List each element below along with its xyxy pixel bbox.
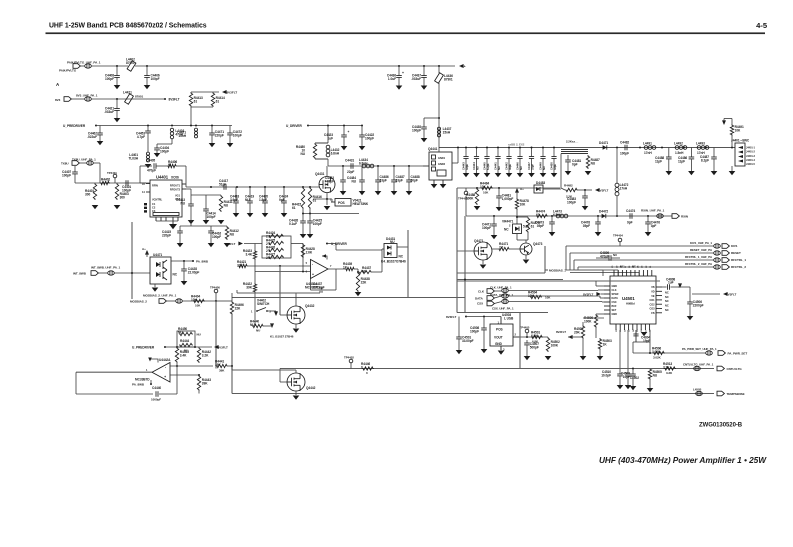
header rule	[46, 32, 766, 34]
svg-text:C4447: C4447	[527, 162, 531, 170]
svg-text:PA_PWR_SET_UHF_PA_1: PA_PWR_SET_UHF_PA_1	[682, 347, 717, 351]
node	[171, 125, 173, 127]
wire	[280, 314, 287, 316]
svg-text:22pF: 22pF	[327, 179, 334, 183]
heatsink V0421	[330, 198, 369, 206]
resistor R4437 NU	[358, 266, 372, 274]
wire	[231, 366, 233, 370]
wire	[596, 313, 604, 315]
terminal 8V3FLT	[214, 345, 219, 349]
resistor R4416 61	[308, 187, 322, 209]
wire	[190, 107, 192, 126]
svg-text:6.8nH: 6.8nH	[331, 151, 340, 155]
wire	[280, 381, 287, 383]
svg-text:3pF: 3pF	[651, 224, 657, 228]
wire	[114, 178, 116, 183]
wire	[458, 317, 460, 335]
svg-text:51pF: 51pF	[219, 183, 226, 187]
svg-text:CLK: CLK	[478, 289, 485, 293]
terminal PA_PWR_SET	[718, 351, 725, 356]
svg-text:xxBB 2, EX2: xxBB 2, EX2	[508, 142, 525, 146]
svg-text:TP4405: TP4405	[520, 325, 530, 329]
capacitor C4449 NU	[538, 148, 546, 178]
svg-text:8V3FLT: 8V3FLT	[225, 242, 236, 246]
wire	[457, 279, 563, 281]
node	[476, 147, 478, 149]
svg-text:87901: 87901	[135, 94, 143, 98]
svg-text:0.1uF: 0.1uF	[289, 222, 297, 226]
wire	[177, 165, 186, 167]
connector pad CSX	[502, 299, 509, 303]
node	[457, 147, 459, 149]
node	[519, 147, 521, 149]
svg-text:10.0pF: 10.0pF	[601, 373, 611, 377]
wire	[600, 297, 604, 299]
connector pad RFCTRL_1	[714, 258, 721, 262]
resistor R4421 22K	[237, 260, 248, 268]
svg-text:61: 61	[292, 206, 296, 210]
svg-text:TP4402: TP4402	[344, 355, 354, 359]
ground	[545, 356, 552, 360]
svg-text:NU: NU	[591, 161, 596, 165]
svg-text:22K: 22K	[237, 264, 243, 268]
svg-text:NC: NC	[665, 299, 669, 303]
node	[194, 346, 196, 348]
node	[526, 336, 528, 338]
transistor Q4442	[287, 373, 316, 391]
wire 8V3FLT feed	[191, 91, 219, 93]
ground	[324, 206, 331, 210]
ground U4401	[170, 224, 177, 228]
svg-text:61: 61	[216, 99, 220, 103]
node	[516, 216, 518, 218]
svg-text:8V3FLT: 8V3FLT	[446, 315, 457, 319]
resistor R4484 10K	[480, 182, 493, 190]
svg-text:UHF 1-25W Band1 PCB 8485670z02: UHF 1-25W Band1 PCB 8485670z02 / Schemat…	[49, 23, 207, 30]
wire	[578, 189, 592, 191]
wire	[627, 330, 629, 370]
svg-text:100pF: 100pF	[482, 226, 491, 230]
capacitor C4488 50pF	[406, 166, 420, 195]
capacitor C4437 220.0pF	[313, 282, 325, 293]
ground	[585, 171, 592, 175]
wire	[526, 333, 528, 337]
connector pad DATA	[502, 294, 509, 298]
svg-text:39pF: 39pF	[583, 224, 590, 228]
node	[647, 215, 649, 217]
wire	[466, 316, 501, 318]
svg-text:PA9UPVLTG_UHF_PA_1: PA9UPVLTG_UHF_PA_1	[67, 61, 101, 65]
svg-text:NU: NU	[178, 331, 183, 335]
wire	[575, 269, 603, 271]
resistor R4487 NU	[586, 155, 600, 169]
svg-text:TP4406: TP4406	[210, 285, 220, 289]
svg-text:.022uF: .022uF	[87, 135, 97, 139]
svg-text:SPGR: SPGR	[612, 293, 619, 296]
svg-text:8V3FLT: 8V3FLT	[726, 292, 737, 296]
svg-text:8V3FLT: 8V3FLT	[169, 97, 180, 101]
wire PA output bus	[439, 147, 735, 149]
svg-text:XC06: XC06	[171, 175, 179, 179]
wire	[231, 315, 233, 394]
svg-text:2200pF: 2200pF	[693, 303, 704, 307]
inductor L4471 15nH	[177, 128, 197, 138]
svg-text:39K: 39K	[215, 363, 221, 367]
wire	[76, 393, 153, 395]
svg-text:C4502: C4502	[630, 376, 639, 380]
node	[198, 374, 200, 376]
svg-text:VE: VE	[651, 295, 655, 298]
capacitor C4501 33.00pF	[456, 334, 474, 354]
node	[343, 125, 345, 127]
ground	[729, 171, 736, 175]
wire	[595, 281, 597, 286]
ground module	[431, 184, 438, 188]
node	[398, 65, 400, 67]
svg-text:J4401-4: J4401-4	[746, 159, 755, 162]
capacitor C4483 100pF	[567, 190, 588, 210]
svg-text:100pF: 100pF	[151, 77, 160, 81]
svg-text:10K: 10K	[480, 185, 486, 189]
wire	[231, 293, 233, 301]
capacitor C4447 33pF	[527, 148, 535, 178]
wire	[215, 293, 217, 301]
capacitor C4407 100pF	[62, 166, 78, 178]
resistor R4415 61	[292, 187, 305, 210]
node	[210, 186, 212, 188]
wire	[198, 391, 200, 394]
wire	[279, 369, 281, 383]
capacitor C4414 100pF	[203, 195, 216, 224]
node	[408, 165, 410, 167]
svg-text:PA_PWR_SET: PA_PWR_SET	[728, 351, 748, 355]
svg-text:17nH: 17nH	[644, 151, 652, 155]
svg-text:1,000pF: 1,000pF	[502, 197, 514, 201]
svg-text:+: +	[348, 130, 350, 134]
svg-text:33pF: 33pF	[380, 178, 387, 182]
svg-text:C4449: C4449	[538, 162, 542, 170]
node	[147, 125, 149, 127]
svg-text:10K: 10K	[528, 294, 534, 298]
svg-text:3.2K: 3.2K	[202, 353, 209, 357]
wire	[595, 328, 597, 338]
wire	[508, 290, 598, 292]
wire	[171, 260, 193, 262]
wire	[598, 289, 604, 291]
node	[183, 260, 185, 262]
resistor R4505 NU	[648, 368, 662, 380]
svg-text:KIV1_UHF_PA_1: KIV1_UHF_PA_1	[690, 241, 712, 245]
svg-text:J4401-1: J4401-1	[746, 146, 755, 149]
inductor L4437 15nH	[437, 127, 451, 137]
capacitor C4444 NU	[472, 148, 480, 178]
wire	[407, 230, 409, 297]
wire	[198, 346, 200, 348]
wire PA_PWR_SET	[633, 352, 706, 354]
connector pad CNTLVLTG	[694, 366, 701, 370]
switch X4402	[251, 298, 272, 313]
wire	[601, 301, 603, 304]
node	[465, 147, 467, 149]
svg-text:8V3FLT: 8V3FLT	[598, 188, 609, 192]
resistor R4501 6.8K	[531, 331, 543, 339]
svg-text:0: 0	[361, 365, 363, 369]
capacitor C4474 9pF	[626, 209, 635, 224]
wire	[731, 136, 733, 148]
wire	[295, 293, 297, 306]
svg-text:.033uF: .033uF	[411, 77, 421, 81]
terminal A+	[145, 250, 149, 255]
svg-text:8V3: 8V3	[55, 98, 61, 102]
capacitor C4404 100pF	[154, 144, 169, 153]
wire	[191, 106, 213, 108]
wire RF output	[185, 184, 187, 187]
terminal PA9UPVLTG	[73, 64, 80, 69]
svg-text:CLK: CLK	[612, 289, 617, 292]
wire	[482, 260, 484, 264]
capacitor C4486 11pF	[678, 148, 695, 176]
wire	[327, 243, 336, 245]
wire	[302, 209, 304, 214]
svg-text:15nH: 15nH	[178, 134, 186, 138]
wire	[508, 301, 602, 303]
terminal RESET	[722, 251, 729, 256]
svg-text:GND1: GND1	[438, 156, 446, 160]
wire	[93, 162, 100, 164]
connector pad 8V3	[85, 97, 92, 101]
wire	[602, 270, 604, 276]
svg-text:NU: NU	[180, 201, 185, 205]
node	[327, 125, 329, 127]
wire	[327, 159, 329, 166]
resistor R4504 10K	[528, 291, 542, 299]
svg-text:10K: 10K	[520, 202, 526, 206]
svg-text:NC: NC	[665, 295, 669, 299]
node	[211, 125, 213, 127]
svg-text:NU: NU	[542, 166, 546, 170]
arrow	[270, 323, 274, 328]
wire	[543, 188, 561, 190]
node	[464, 279, 466, 281]
inductor L4493	[697, 146, 709, 150]
wire 8V3FLT right	[692, 293, 720, 295]
wire	[466, 215, 500, 217]
capacitor C4438 100pF	[412, 118, 427, 142]
capacitor C4436 1.0uF	[387, 66, 402, 90]
svg-text:50pF: 50pF	[411, 178, 418, 182]
op-amp U4401 driver IC	[142, 174, 186, 224]
svg-text:22.00pF: 22.00pF	[188, 270, 200, 274]
node	[302, 271, 304, 273]
capacitor C4482 100pF	[620, 141, 629, 156]
wire	[678, 286, 690, 288]
svg-text:K4_B1027O7B46: K4_B1027O7B46	[381, 259, 406, 263]
resistor R4406 61	[167, 160, 177, 168]
node	[498, 187, 500, 189]
svg-text:RESET: RESET	[731, 251, 741, 255]
svg-text:100pF: 100pF	[207, 215, 216, 219]
wire	[596, 257, 609, 259]
svg-text:TP4401: TP4401	[107, 171, 117, 175]
connector J4401 BNC	[731, 139, 755, 167]
resistor R4482 2.2K	[565, 188, 578, 191]
svg-text:33pF: 33pF	[553, 164, 557, 170]
node	[279, 265, 281, 267]
svg-text:8V3FLT: 8V3FLT	[556, 330, 566, 334]
svg-text:3.02K: 3.02K	[652, 350, 661, 354]
capacitor C4507 500pF	[524, 340, 540, 360]
svg-text:H98Bd: H98Bd	[626, 302, 635, 306]
svg-text:.033uF: .033uF	[104, 110, 114, 114]
svg-text:NC: NC	[665, 304, 669, 308]
svg-text:C4446: C4446	[515, 162, 519, 170]
svg-text:39K: 39K	[219, 369, 225, 373]
ground	[523, 260, 530, 264]
wire	[254, 260, 256, 283]
resistor R4478 10K	[515, 198, 529, 210]
wire feedback	[310, 279, 312, 291]
node	[283, 186, 285, 188]
svg-text:NC: NC	[632, 265, 636, 269]
node	[342, 165, 344, 167]
svg-text:MC33B7D: MC33B7D	[135, 377, 150, 381]
connector pad RXIN	[657, 214, 664, 218]
wire	[456, 188, 458, 313]
capacitor C4440 1000pF	[152, 386, 161, 397]
capacitor C4487 8.2pF	[700, 148, 717, 176]
node	[146, 65, 148, 67]
node	[176, 365, 178, 367]
resistor ladder box	[262, 236, 291, 258]
node	[176, 346, 178, 348]
capacitor C4484 NU	[347, 166, 365, 195]
svg-text:2.6K: 2.6K	[306, 250, 313, 254]
transistor Q4431	[315, 172, 335, 193]
svg-text:CSX: CSX	[612, 301, 617, 304]
resistor R4496 22K	[230, 301, 244, 315]
svg-text:C4443: C4443	[461, 162, 465, 170]
resistor R4427 2.7	[266, 252, 284, 259]
svg-text:-: -	[165, 366, 166, 370]
wire RFCTRL_2 line	[578, 266, 714, 268]
wire	[566, 269, 618, 271]
svg-text:INT_8WB: INT_8WB	[73, 272, 87, 276]
svg-text:NC: NC	[399, 255, 404, 259]
wire	[382, 248, 384, 250]
svg-text:61: 61	[168, 163, 172, 167]
wire driver match bus	[328, 165, 429, 167]
svg-text:22pF: 22pF	[347, 170, 354, 174]
svg-text:3.4K: 3.4K	[180, 353, 187, 357]
node	[705, 147, 707, 149]
capacitor C4422 100pF	[359, 126, 375, 151]
capacitor C4406 100pF	[144, 66, 160, 89]
svg-text:22K: 22K	[361, 280, 367, 284]
svg-text:17nH: 17nH	[620, 186, 628, 190]
svg-text:0pF: 0pF	[572, 162, 578, 166]
svg-text:100pF: 100pF	[233, 133, 242, 137]
svg-text:U4501: U4501	[622, 296, 635, 301]
capacitor C4419 NU	[245, 187, 254, 217]
node	[302, 186, 304, 188]
terminal TX8U	[72, 161, 79, 166]
svg-text:CO1: CO1	[650, 299, 656, 302]
wire	[176, 363, 178, 394]
capacitor C4442 39pF	[504, 148, 512, 178]
capacitor C4424 9pF	[279, 187, 288, 217]
svg-text:RXIN_UHF_PA_1: RXIN_UHF_PA_1	[641, 209, 665, 213]
svg-text:3.4K: 3.4K	[245, 252, 252, 256]
wire	[545, 269, 548, 271]
svg-text:C4450: C4450	[549, 162, 553, 170]
resistor R4488 100K	[466, 188, 479, 205]
node	[249, 186, 251, 188]
wire	[79, 162, 86, 164]
svg-text:6.8nH: 6.8nH	[359, 162, 368, 166]
ground	[480, 265, 487, 269]
capacitor C4437 .033uF	[411, 66, 427, 90]
ground	[154, 153, 161, 157]
svg-text:1.0uF: 1.0uF	[388, 77, 396, 81]
resistor R4445 3.4K	[175, 347, 189, 363]
wire spine	[131, 222, 133, 299]
svg-text:C4445: C4445	[482, 162, 486, 170]
svg-text:100pF: 100pF	[620, 151, 629, 155]
node	[438, 117, 440, 119]
resistor R4506 3.02K	[652, 347, 665, 355]
wire	[154, 284, 156, 287]
svg-text:C4431: C4431	[345, 158, 354, 162]
svg-text:L USB: L USB	[504, 316, 514, 320]
ground	[580, 356, 587, 360]
svg-text:R4402: R4402	[101, 178, 110, 182]
terminal A+ arrow	[515, 188, 519, 193]
terminal RFCTRL_2	[722, 265, 729, 270]
wire	[254, 244, 256, 251]
capacitor C4804 19pF	[633, 330, 650, 343]
capacitor C4510 10.0pF	[601, 370, 623, 389]
svg-text:U4471: U4471	[153, 253, 162, 257]
svg-text:470pF: 470pF	[147, 169, 156, 173]
resistor R4440 NU	[250, 320, 264, 328]
svg-text:NC: NC	[504, 227, 509, 231]
svg-text:D4472: D4472	[599, 210, 608, 214]
svg-text:100K: 100K	[551, 343, 559, 347]
wire	[519, 313, 521, 369]
op-amp U4402 RF power module	[428, 147, 452, 184]
capacitor C4502 2200pF	[625, 370, 640, 389]
capacitor C4416 100pF	[208, 226, 222, 247]
node	[236, 186, 238, 188]
wire	[494, 290, 501, 292]
node	[597, 215, 599, 217]
svg-text:TX8U: TX8U	[61, 162, 68, 166]
wire	[457, 187, 560, 189]
svg-text:39K: 39K	[246, 285, 252, 289]
svg-text:15nH: 15nH	[443, 130, 451, 134]
ground regulator	[498, 351, 505, 355]
wire	[91, 98, 164, 100]
capacitor C4446 NU	[515, 148, 523, 178]
wire	[139, 166, 141, 183]
node	[302, 213, 304, 215]
wire	[568, 336, 583, 338]
wire	[438, 148, 440, 153]
svg-text:L4492: L4492	[674, 141, 683, 145]
capacitor C4506 2200pF	[687, 300, 704, 320]
wire	[494, 302, 501, 304]
wire RESET line	[570, 252, 714, 254]
